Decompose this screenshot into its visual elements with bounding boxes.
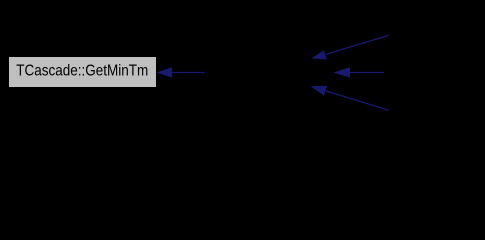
svg-text:TCascade::GetMinTm: TCascade::GetMinTm [16, 63, 148, 80]
arrowhead top [311, 50, 327, 59]
wire: edge from hidden bottom-right caller to hidden middle node [311, 86, 389, 110]
wire: edge from hidden middle-right caller to hidden middle node [334, 67, 384, 77]
arrowhead middle [334, 67, 351, 77]
arrowhead into TCascade::GetMinTm [156, 67, 172, 77]
wire: edge from hidden top-right caller to hidden middle node [311, 35, 389, 59]
arrowhead bottom [311, 86, 327, 96]
node TCascade::GetMinTm (current node, grey fill) [9, 57, 156, 87]
wire: edge from hidden middle caller node to TCascade::GetMinTm [156, 67, 204, 77]
